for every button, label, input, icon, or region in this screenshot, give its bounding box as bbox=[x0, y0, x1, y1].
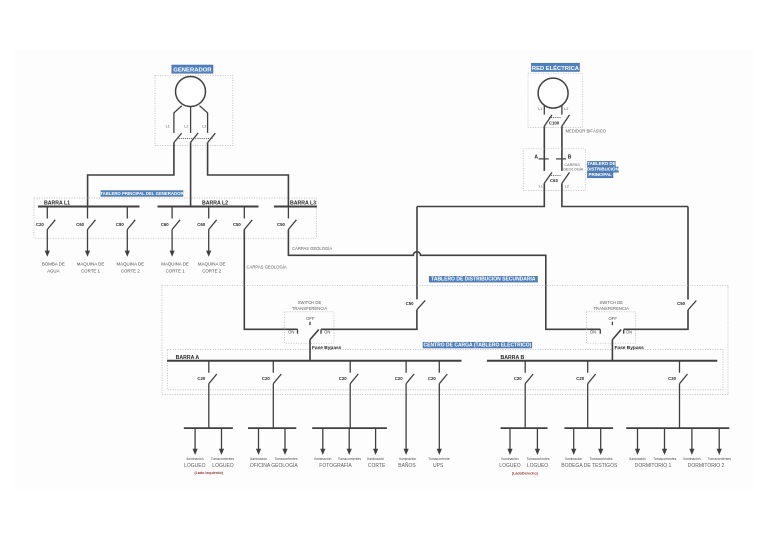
bus BARRA L3 bbox=[274, 206, 317, 208]
breaker C20 barra A #2 bbox=[273, 361, 281, 384]
switch B ON-left contact tick bbox=[599, 329, 601, 333]
label PRINCIPAL bbox=[587, 172, 613, 178]
meter leg L1 bbox=[543, 105, 545, 114]
label DISTRIBUCION bbox=[587, 167, 619, 173]
svg-text:OFICINA GEOLOGÍA: OFICINA GEOLOGÍA bbox=[250, 462, 298, 469]
breaker C50 right (red feed) bbox=[688, 301, 696, 310]
transfer switch B box bbox=[586, 312, 635, 343]
svg-text:C60: C60 bbox=[76, 222, 84, 227]
svg-text:MEDIDOR BIFÁSICO: MEDIDOR BIFÁSICO bbox=[566, 128, 607, 133]
svg-text:C20: C20 bbox=[395, 376, 403, 381]
svg-text:BOMBA DE: BOMBA DE bbox=[42, 262, 65, 267]
wire C63 L2 right bbox=[562, 183, 688, 206]
breaker C63 blade L2 bbox=[562, 172, 570, 183]
svg-text:C50: C50 bbox=[677, 301, 685, 306]
svg-text:Tomacorrientes: Tomacorrientes bbox=[526, 457, 549, 461]
svg-text:ON: ON bbox=[626, 330, 632, 335]
wire gen L1 to BARRA L1 bbox=[88, 143, 174, 207]
transfer switch A pivot wire to bus bbox=[309, 340, 311, 361]
svg-text:CORTE 2: CORTE 2 bbox=[121, 269, 141, 274]
svg-text:CORTE 1: CORTE 1 bbox=[81, 269, 101, 274]
svg-text:C100: C100 bbox=[549, 121, 560, 126]
tablero principal del generador box bbox=[34, 198, 316, 238]
svg-text:CARPAS GEOLOGÍA: CARPAS GEOLOGÍA bbox=[247, 265, 287, 270]
wire C100 L1 down bbox=[543, 126, 545, 171]
generator leg L3 bbox=[200, 106, 208, 133]
load bus OFICINA GEOLOGIA bbox=[272, 384, 274, 428]
label GENERADOR bbox=[172, 65, 213, 74]
svg-text:(Lado Izquierdo): (Lado Izquierdo) bbox=[194, 471, 223, 475]
svg-text:LOGUEO: LOGUEO bbox=[499, 463, 521, 469]
svg-text:B: B bbox=[568, 154, 572, 160]
svg-text:TABLERO PRINCIPAL DEL GENERADO: TABLERO PRINCIPAL DEL GENERADOR bbox=[100, 191, 184, 196]
svg-text:CENTRO DE CARGA (TABLERO ELÉCT: CENTRO DE CARGA (TABLERO ELÉCTRICO) bbox=[424, 340, 532, 348]
svg-text:SWITCH DE: SWITCH DE bbox=[599, 300, 623, 305]
switch A ON-right contact tick bbox=[320, 329, 322, 333]
svg-text:OFF: OFF bbox=[306, 316, 315, 321]
generator G1 circle bbox=[176, 77, 206, 107]
transfer switch B pivot wire to bus bbox=[611, 340, 613, 361]
svg-text:TRANSFERENCIA: TRANSFERENCIA bbox=[292, 306, 328, 311]
svg-text:MAQUINA DE: MAQUINA DE bbox=[77, 262, 105, 267]
generator enclosure box bbox=[155, 75, 233, 145]
arrow to MAQUINA DE CORTE 2 bbox=[208, 230, 210, 251]
svg-text:Tomacorrientes: Tomacorrientes bbox=[211, 457, 234, 461]
breaker C100 tie line bbox=[549, 117, 561, 119]
svg-text:BAÑOS: BAÑOS bbox=[398, 462, 416, 469]
transfer switch A blade bbox=[310, 330, 319, 340]
svg-text:C20: C20 bbox=[514, 376, 522, 381]
svg-text:C20: C20 bbox=[668, 376, 676, 381]
svg-text:CORTE 2: CORTE 2 bbox=[202, 269, 222, 274]
svg-text:ON: ON bbox=[288, 330, 294, 335]
wire gen L2 to BARRA L2 bbox=[190, 142, 192, 206]
svg-text:BARRA L2: BARRA L2 bbox=[202, 200, 228, 206]
svg-text:C20: C20 bbox=[36, 222, 44, 227]
svg-text:Iluminación: Iluminación bbox=[367, 457, 384, 461]
wire down to C50 left bbox=[416, 207, 418, 300]
svg-text:L2: L2 bbox=[184, 125, 188, 129]
svg-text:Iluminación: Iluminación bbox=[683, 457, 700, 461]
svg-text:L1: L1 bbox=[539, 185, 543, 189]
load BANOS bbox=[405, 384, 407, 448]
svg-text:C20: C20 bbox=[262, 376, 270, 381]
generator leg L1 bbox=[174, 106, 182, 133]
svg-text:LOGUEO: LOGUEO bbox=[212, 463, 234, 469]
svg-text:L3: L3 bbox=[202, 125, 206, 129]
bus BARRA A bbox=[167, 360, 462, 362]
svg-text:Iluminación: Iluminación bbox=[399, 457, 416, 461]
svg-text:GENERADOR: GENERADOR bbox=[173, 68, 212, 74]
transfer switch A box bbox=[285, 312, 334, 343]
svg-text:C50: C50 bbox=[233, 222, 241, 227]
bus BARRA L2 bbox=[158, 206, 259, 208]
bus BARRA B bbox=[487, 360, 717, 362]
node B tick bbox=[556, 158, 566, 160]
breaker C63 blade L1 bbox=[544, 172, 552, 183]
svg-text:(LadoDerecho): (LadoDerecho) bbox=[512, 471, 539, 475]
label TABLERO PRINCIPAL DEL GENERADOR bbox=[100, 191, 184, 197]
tablero distribucion principal box bbox=[523, 149, 585, 191]
svg-text:OFF: OFF bbox=[609, 316, 618, 321]
svg-text:CORTE 1: CORTE 1 bbox=[166, 269, 186, 274]
node A tick bbox=[539, 158, 549, 160]
svg-text:Tomacorrientes: Tomacorrientes bbox=[589, 457, 612, 461]
breaker C20 barra B #1 bbox=[525, 361, 533, 384]
meter leg L2 bbox=[561, 105, 563, 114]
red electrica enclosure box bbox=[528, 73, 583, 127]
centro de carga box bbox=[168, 350, 724, 390]
gen switch blade L3 bbox=[208, 133, 216, 142]
svg-text:Tomacorrientes: Tomacorrientes bbox=[274, 457, 297, 461]
svg-text:MAQUINA DE: MAQUINA DE bbox=[117, 262, 145, 267]
svg-text:ON: ON bbox=[324, 330, 330, 335]
svg-text:Iluminación: Iluminación bbox=[314, 457, 331, 461]
svg-text:C20: C20 bbox=[197, 376, 205, 381]
breaker C20 barra B #3 bbox=[680, 361, 688, 384]
svg-text:Fase Bypass: Fase Bypass bbox=[615, 345, 645, 351]
svg-text:MAQUINA DE: MAQUINA DE bbox=[161, 262, 189, 267]
wire C50 right to switch B ON-right bbox=[624, 310, 688, 329]
svg-text:C20: C20 bbox=[576, 376, 584, 381]
breaker C20 barra B #2 bbox=[588, 361, 596, 384]
wire C50 left to switch A ON-right bbox=[321, 310, 417, 330]
svg-text:RED ELÉCTRICA: RED ELÉCTRICA bbox=[532, 64, 580, 72]
breaker C80 feeding MAQUINA DE CORTE 2 bbox=[127, 207, 135, 230]
svg-text:Iluminación: Iluminación bbox=[187, 457, 204, 461]
svg-text:L2: L2 bbox=[564, 107, 568, 111]
svg-text:Tomacorrientes: Tomacorrientes bbox=[708, 457, 731, 461]
breaker C63 tie line bbox=[549, 175, 561, 177]
label TABLERO DE bbox=[587, 161, 615, 167]
svg-text:LOGUEO: LOGUEO bbox=[184, 463, 206, 469]
svg-text:BARRA L1: BARRA L1 bbox=[44, 200, 70, 206]
svg-text:TRANSFERENCIA: TRANSFERENCIA bbox=[594, 306, 630, 311]
svg-text:TABLERO DE DISTRIBUCIÓN SECUND: TABLERO DE DISTRIBUCIÓN SECUNDARIA bbox=[431, 275, 536, 283]
svg-text:Iluminación: Iluminación bbox=[501, 457, 518, 461]
svg-text:Iluminación: Iluminación bbox=[565, 457, 582, 461]
svg-text:BODEGA DE TESTIGOS: BODEGA DE TESTIGOS bbox=[561, 463, 618, 469]
gen switch blade L2 bbox=[191, 133, 199, 142]
svg-text:L1: L1 bbox=[538, 107, 542, 111]
svg-text:Tomacorriente: Tomacorriente bbox=[428, 457, 450, 461]
breaker C50 left (red feed) bbox=[417, 300, 425, 309]
breaker C60 feeding MAQUINA DE CORTE 1 bbox=[172, 207, 180, 230]
svg-text:UPS: UPS bbox=[433, 463, 444, 469]
transfer switch B OFF tick bbox=[611, 322, 613, 326]
svg-text:Iluminación: Iluminación bbox=[250, 457, 267, 461]
gen switch tie line bbox=[179, 137, 213, 139]
breaker C20 barra A #1 bbox=[209, 361, 217, 384]
load UPS bbox=[438, 384, 440, 448]
svg-text:C50: C50 bbox=[277, 222, 285, 227]
svg-text:Iluminación: Iluminación bbox=[629, 457, 646, 461]
svg-text:DISTRIBUCIÓN: DISTRIBUCIÓN bbox=[587, 167, 619, 172]
tablero de distribucion secundaria box bbox=[162, 285, 728, 394]
arrow to MAQUINA DE CORTE 1 bbox=[87, 230, 89, 251]
load bus LOGUEO right bbox=[524, 384, 526, 428]
svg-text:LOGUEO: LOGUEO bbox=[527, 463, 549, 469]
breaker C100 blade L1 bbox=[544, 115, 552, 126]
breaker C20 barra A #4 bbox=[406, 361, 414, 384]
svg-text:Tomacorrientes: Tomacorrientes bbox=[653, 457, 676, 461]
svg-text:C20: C20 bbox=[428, 376, 436, 381]
breaker C100 blade L2 bbox=[562, 115, 570, 126]
breaker C50 BARRA L3 carpas geologia bbox=[288, 207, 296, 230]
breaker C60 feeding MAQUINA DE CORTE 2 bbox=[209, 207, 217, 230]
wire C100 L2 down bbox=[561, 126, 563, 171]
wire C63 L1 left bbox=[417, 183, 544, 206]
breaker C20 barra A #3 bbox=[350, 361, 358, 384]
svg-text:Tomacorrientes: Tomacorrientes bbox=[338, 457, 361, 461]
gen switch blade L1 bbox=[174, 133, 182, 142]
wire C50-L3 carpas to switch B ON-left with hop bbox=[288, 230, 600, 330]
svg-text:DORMITORIO 1: DORMITORIO 1 bbox=[635, 463, 672, 469]
transfer switch A OFF tick bbox=[309, 322, 311, 326]
breaker C50 BARRA L2 to transfer switch A bbox=[244, 207, 252, 230]
load bus BODEGA DE TESTIGOS bbox=[587, 384, 589, 428]
svg-text:BARRA L3: BARRA L3 bbox=[290, 200, 316, 206]
generator leg L2 bbox=[190, 107, 192, 133]
breaker C20 feeding BOMBA DE AGUA bbox=[47, 207, 55, 230]
svg-text:C20: C20 bbox=[339, 376, 347, 381]
switch B ON-right contact tick bbox=[623, 329, 625, 333]
svg-text:L2: L2 bbox=[565, 185, 569, 189]
svg-text:FOTOGRAFÍA: FOTOGRAFÍA bbox=[319, 462, 352, 469]
svg-text:PRINCIPAL: PRINCIPAL bbox=[589, 172, 613, 177]
wire gen L3 to BARRA L3 bbox=[208, 143, 289, 207]
label TABLERO DE DISTRIBUCION SECUNDARIA bbox=[429, 275, 537, 283]
bus BARRA L1 bbox=[38, 206, 140, 208]
breaker C20 barra A #5 bbox=[439, 361, 447, 384]
svg-text:GEOLOGÍA: GEOLOGÍA bbox=[563, 167, 584, 171]
svg-text:L1: L1 bbox=[166, 125, 170, 129]
svg-text:C50: C50 bbox=[406, 301, 414, 306]
svg-text:SWITCH DE: SWITCH DE bbox=[298, 300, 322, 305]
svg-text:TABLERO DE: TABLERO DE bbox=[587, 161, 615, 166]
arrow to MAQUINA DE CORTE 1 bbox=[171, 230, 173, 251]
switch A ON-left contact tick bbox=[297, 329, 299, 333]
wire C50-L2 down to switch A ON-left bbox=[244, 230, 297, 330]
breaker C60 feeding MAQUINA DE CORTE 1 bbox=[88, 207, 96, 230]
svg-text:MAQUINA DE: MAQUINA DE bbox=[198, 262, 226, 267]
transfer switch B blade bbox=[612, 330, 621, 340]
svg-text:Fase Bypass: Fase Bypass bbox=[312, 345, 342, 351]
wire down to C50 right bbox=[687, 207, 689, 300]
load bus FOTOGRAFIA CORTE bbox=[349, 384, 351, 428]
svg-text:C63: C63 bbox=[550, 178, 558, 183]
svg-text:AGUA: AGUA bbox=[47, 269, 60, 274]
svg-text:CARPAS GEOLOGÍA: CARPAS GEOLOGÍA bbox=[292, 246, 332, 251]
svg-text:C60: C60 bbox=[197, 222, 205, 227]
arrow to MAQUINA DE CORTE 2 bbox=[126, 230, 128, 251]
utility meter circle bbox=[538, 78, 568, 108]
label RED ELECTRICA bbox=[531, 63, 579, 72]
load bus LOGUEO left bbox=[208, 384, 210, 428]
label CENTRO DE CARGA bbox=[423, 340, 532, 348]
arrow to BOMBA DE AGUA bbox=[46, 230, 48, 251]
svg-text:DORMITORIO 2: DORMITORIO 2 bbox=[688, 463, 725, 469]
svg-text:C80: C80 bbox=[116, 222, 124, 227]
svg-text:C60: C60 bbox=[161, 222, 169, 227]
load bus DORMITORIOS bbox=[679, 384, 681, 428]
svg-text:CORTE: CORTE bbox=[368, 463, 386, 469]
svg-text:A: A bbox=[534, 154, 538, 160]
svg-text:ON: ON bbox=[590, 330, 596, 335]
